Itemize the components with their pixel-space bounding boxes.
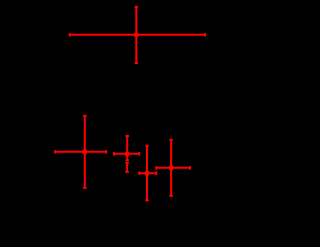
- data point P1 error bars: [70, 7, 205, 63]
- data point P5 error bars: [156, 140, 190, 196]
- data point P4 error bars: [139, 146, 156, 201]
- data point P3b vertical error bar: [125, 163, 129, 172]
- data point P3 error bars: [114, 136, 139, 160]
- data point P2 error bars: [55, 116, 106, 188]
